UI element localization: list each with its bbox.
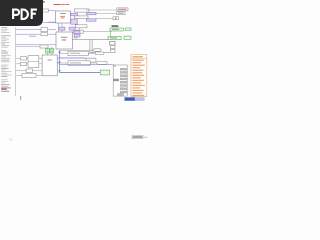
wire col-low2 (16, 74, 22, 76)
box EC-left 2 (20, 62, 26, 65)
green stem 2 (51, 47, 53, 49)
blue wire y64 (60, 63, 114, 65)
blue footer bar left (124, 97, 135, 101)
schematic title (red) part2 (61, 4, 65, 5)
gray table dark cell (113, 79, 119, 82)
green stem 1 (46, 47, 48, 49)
green box 2 dash b (51, 50, 53, 53)
box top C (75, 16, 89, 19)
title block light strip (143, 137, 148, 138)
wire D to J3 (96, 17, 113, 19)
wire cpu-E (71, 13, 72, 15)
wire L2-chipset (48, 33, 57, 35)
wire B to J2 (96, 13, 117, 15)
capsule 2 (95, 52, 104, 55)
faint teal speck (9, 138, 12, 140)
blue bus vertical (59, 50, 61, 72)
capsule 4 (97, 61, 107, 64)
clock gen box (42, 9, 48, 12)
wire y53 a (60, 52, 69, 54)
wire H down (79, 28, 81, 30)
blue footer bar text (125, 98, 134, 99)
USB1 text (110, 37, 117, 40)
blue bus arrows (59, 52, 61, 53)
memory bus horizontal (90, 52, 110, 54)
schematic title (red) part3 (66, 4, 70, 5)
orange header text (133, 56, 144, 57)
box above EC (40, 45, 48, 48)
LAN1 text (112, 28, 119, 31)
wire y63 b (90, 62, 97, 64)
small box pair b (116, 17, 119, 20)
box top A (75, 9, 90, 12)
box top D (purple) (87, 19, 97, 21)
wire col-boxEC (16, 46, 40, 48)
net label (purple) (49, 22, 55, 23)
gray table corner label (113, 65, 116, 66)
box EC-low 2 (22, 73, 36, 77)
small mark right of badge (43, 1, 45, 3)
memory bus drop 1 (89, 40, 91, 53)
blue footer bar right (135, 97, 144, 101)
CPU label (60, 12, 65, 15)
wire stub bottom (19, 96, 22, 100)
EC label (48, 59, 52, 62)
DIMM socket box 3 (111, 49, 115, 52)
junction dots (74, 37, 75, 38)
PDF badge letter F (32, 10, 37, 19)
box left L2 (41, 33, 48, 36)
wire cpu-F (71, 19, 72, 21)
J2 text (118, 13, 124, 14)
red net label (1, 87, 7, 90)
box H (76, 25, 88, 28)
wire to LAN cluster (83, 31, 111, 33)
CPU red label 1 (60, 15, 65, 18)
blue wire y72 (60, 72, 101, 74)
wire col-L2 (16, 33, 41, 35)
chipset label (61, 36, 68, 39)
green box LAN1 (110, 28, 123, 31)
green box LAN2 (125, 28, 131, 30)
wire col-L1 (16, 29, 41, 31)
purple box right of chipset 2 (74, 34, 80, 37)
page background (0, 0, 149, 198)
title block text (133, 136, 143, 137)
net-name text column (left pin labels) (1, 27, 11, 91)
bus CPU-chipset 2 (61, 23, 63, 32)
green box USB2 (124, 36, 131, 39)
wire EC-bus b (57, 62, 59, 64)
green box above EC 1 (46, 49, 50, 54)
capsule 3 (86, 58, 96, 62)
green stem 4 (51, 53, 53, 55)
small box pair a (113, 17, 116, 20)
green wire down (110, 31, 112, 36)
connector J1 (red label) (117, 8, 128, 11)
DIMM socket box 1 (110, 41, 115, 45)
small purple box FG (71, 19, 77, 24)
DIMM socket box 2 (111, 45, 115, 48)
wire mid-EC a (39, 57, 42, 59)
HDD text (70, 62, 81, 65)
purple wire y58 (60, 57, 87, 59)
EC block U3 (42, 55, 57, 76)
box F wide (73, 30, 83, 33)
orange power table (131, 55, 147, 97)
wire col-low1 (16, 70, 26, 72)
long box HDD (68, 61, 90, 66)
purple box below CPU 2 (69, 27, 75, 30)
box EC-low 1 (26, 69, 33, 72)
mini-card text (70, 52, 80, 55)
wire y63 a (60, 62, 69, 64)
green box 1 dash b (46, 50, 48, 53)
memory bus wire (73, 39, 109, 41)
green box audio (100, 70, 109, 75)
wire CPU left 2 (43, 21, 56, 23)
J1 red text (118, 9, 127, 10)
capsule SPI flash (94, 49, 102, 52)
green box above EC 2 (50, 49, 54, 54)
purple box below CPU 1 (59, 27, 65, 30)
divider EC-mid (28, 60, 39, 62)
box EC-left 1 (20, 57, 26, 60)
wire ECL1-mid (26, 57, 28, 59)
connector J2 (117, 12, 125, 15)
PDF badge (0, 0, 43, 26)
long box mini-card (68, 51, 88, 55)
wire L1-chipset (48, 29, 57, 31)
CPU red label 2 (61, 17, 65, 20)
box left L1 (41, 28, 48, 32)
wire col-chipset 3 (16, 44, 56, 46)
memory bus drop 2 (91, 40, 93, 53)
chipset block U2 (56, 32, 73, 49)
chipset red label (62, 39, 66, 42)
wire col-ECL2 (16, 63, 20, 65)
bus CPU-chipset 1 (58, 23, 60, 32)
gray table last row cell (117, 94, 123, 96)
wire ECL2-mid (26, 63, 28, 65)
green box USB1 (108, 36, 121, 39)
wire EC-bus a (57, 57, 59, 59)
orange header divider (131, 58, 147, 60)
title block label (132, 136, 143, 139)
purple net label (29, 36, 36, 37)
purple box right of chipset 1 (74, 31, 80, 34)
green stem 3 (46, 53, 48, 55)
wire y50 (60, 49, 94, 51)
wire mid-EC b (39, 63, 42, 65)
wire low2-EC (36, 74, 42, 76)
small purple box E (71, 13, 78, 16)
PDF badge letter D (22, 10, 28, 19)
gray strap table (113, 65, 127, 96)
connector block left edge wire (15, 27, 17, 96)
green box 2 dash a (51, 49, 53, 52)
wire A to J1 (86, 9, 117, 11)
wire col-ECL1 (16, 57, 20, 59)
box EC-mid (28, 56, 39, 68)
box top B (purple) (87, 12, 97, 15)
LAN magnetics marks (112, 25, 119, 27)
wire y53 b (88, 52, 95, 54)
wire CPU left 1 (43, 10, 56, 12)
wire low1-EC (33, 70, 42, 72)
PDF badge letter P (13, 10, 19, 19)
green box 1 dash a (46, 49, 48, 52)
schematic title (red) part1 (54, 4, 61, 5)
CPU block U1 (56, 11, 71, 23)
